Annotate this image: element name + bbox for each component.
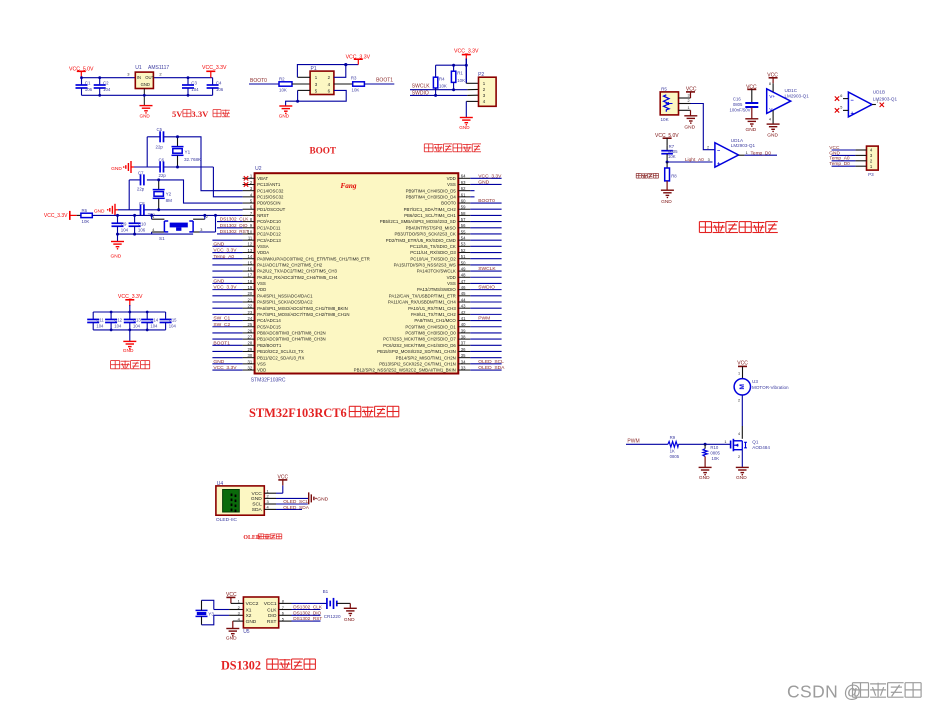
svg-text:13: 13 <box>248 248 253 253</box>
resistor R4 <box>433 77 437 88</box>
svg-text:PA0/WKUP/ADC0/TIM2_CH1_ETR/TIM: PA0/WKUP/ADC0/TIM2_CH1_ETR/TIM5_CH1/TIM8… <box>257 256 370 261</box>
svg-text:33: 33 <box>461 365 466 370</box>
svg-text:VDD: VDD <box>447 176 456 181</box>
resistor R1 <box>451 71 455 82</box>
ground GND OLED <box>308 492 310 504</box>
svg-text:64: 64 <box>461 174 466 179</box>
svg-text:VCC_3.3V: VCC_3.3V <box>213 285 237 291</box>
no-connect X pin 2 <box>244 182 248 186</box>
svg-text:20: 20 <box>248 291 253 296</box>
wire VCC drop filter <box>129 305 131 312</box>
wire UD1A output Temp_D0 <box>739 154 745 156</box>
svg-text:B1: B1 <box>323 589 329 594</box>
resistor R3 <box>353 82 365 86</box>
wire top rail download <box>436 64 467 66</box>
wire mosfet source to GND <box>741 450 743 468</box>
motor U3 vibration <box>734 379 750 395</box>
svg-text:58: 58 <box>461 211 466 216</box>
svg-text:U2: U2 <box>255 166 262 172</box>
switch S1 reset button <box>152 218 165 220</box>
svg-text:C3: C3 <box>191 81 197 86</box>
svg-text:Temp_A0: Temp_A0 <box>829 156 850 162</box>
svg-text:PB15/SPI2_MOSI/I2S2_SD/TIM1_CH: PB15/SPI2_MOSI/I2S2_SD/TIM1_CH3N <box>377 349 456 354</box>
wire S1 pin1 up <box>151 215 153 219</box>
svg-text:GND: GND <box>140 113 151 118</box>
svg-text:VCC_3.3V: VCC_3.3V <box>118 294 143 300</box>
capacitor C1 <box>81 78 83 85</box>
svg-text:Temp_D0: Temp_D0 <box>829 161 850 167</box>
svg-text:106: 106 <box>85 87 93 92</box>
header P3 <box>867 146 879 170</box>
svg-text:VDD: VDD <box>447 275 456 280</box>
wire VCC1 to battery <box>292 602 327 604</box>
svg-text:10K: 10K <box>82 219 90 224</box>
svg-text:8M: 8M <box>166 198 173 203</box>
capacitor C14 <box>146 312 148 319</box>
wire Y1 bottom to pin4 <box>213 167 242 197</box>
svg-text:BOOT0: BOOT0 <box>250 78 267 84</box>
svg-text:R5: R5 <box>661 86 667 91</box>
svg-text:VCC2: VCC2 <box>246 601 259 607</box>
wire OLED VCC <box>276 492 283 494</box>
svg-text:GND: GND <box>767 133 778 139</box>
svg-text:4: 4 <box>738 432 740 436</box>
wire R9 to gate <box>679 443 731 445</box>
svg-text:C7: C7 <box>138 170 144 175</box>
junction dots 5V block <box>80 76 83 79</box>
svg-text:PB1/ADC9/TIM3_CH4/TIM8_CH3N: PB1/ADC9/TIM3_CH4/TIM8_CH3N <box>257 337 326 342</box>
svg-text:UD1B: UD1B <box>873 90 885 95</box>
wire R4 top leg <box>435 65 437 77</box>
svg-text:CSDN @: CSDN @ <box>787 682 862 702</box>
svg-text:R4: R4 <box>439 77 445 82</box>
svg-text:PA2/U2_TX/ADC2/TIM2_CH3/TIM5_C: PA2/U2_TX/ADC2/TIM2_CH3/TIM5_CH3 <box>257 269 337 274</box>
svg-text:53: 53 <box>461 242 466 247</box>
svg-text:GND: GND <box>94 208 105 214</box>
svg-text:44: 44 <box>461 297 466 302</box>
svg-text:R2: R2 <box>279 76 285 81</box>
svg-text:106: 106 <box>138 228 146 233</box>
svg-text:DS1302: DS1302 <box>221 659 261 673</box>
svg-text:X2: X2 <box>246 613 252 619</box>
ground GND UD1C <box>767 123 780 125</box>
svg-text:GND: GND <box>111 253 122 259</box>
svg-text:104: 104 <box>121 228 129 233</box>
svg-text:SW_C2: SW_C2 <box>213 322 230 328</box>
svg-text:PC7/I2S3_MCK/TIM8_CH2/SDIO_D7: PC7/I2S3_MCK/TIM8_CH2/SDIO_D7 <box>383 337 456 342</box>
crystal Y2 <box>158 180 160 189</box>
oled screen green rect <box>223 490 240 513</box>
svg-text:VCC1: VCC1 <box>264 601 277 607</box>
svg-text:0805: 0805 <box>710 450 720 455</box>
svg-text:47: 47 <box>461 279 466 284</box>
svg-text:CR1220: CR1220 <box>324 614 341 619</box>
svg-text:PC9/TIM8_CH4/SDIO_D1: PC9/TIM8_CH4/SDIO_D1 <box>405 324 456 329</box>
svg-text:49: 49 <box>461 266 466 271</box>
wire UD1C GND pin <box>772 110 774 124</box>
svg-text:STM32F103RC: STM32F103RC <box>251 377 286 383</box>
svg-text:10K: 10K <box>439 84 447 89</box>
svg-text:104: 104 <box>191 87 199 92</box>
svg-text:GND: GND <box>344 617 355 623</box>
svg-text:40: 40 <box>461 322 466 327</box>
wire S1 pin2 up <box>204 215 206 219</box>
svg-text:57: 57 <box>461 217 466 222</box>
svg-text:OUT: OUT <box>145 75 154 80</box>
resistor R9 zigzag <box>668 442 679 448</box>
wires P3 stubs <box>855 149 866 151</box>
svg-text:50: 50 <box>461 260 466 265</box>
svg-text:DS1302_RST: DS1302_RST <box>220 229 249 234</box>
svg-text:UD1C: UD1C <box>785 88 798 93</box>
svg-text:R9: R9 <box>670 435 676 440</box>
wire battery to GND <box>337 602 351 604</box>
wire divider node to UD1A in+ <box>667 161 712 163</box>
svg-text:DIO: DIO <box>268 613 277 619</box>
resistor R7 plates <box>666 145 668 150</box>
svg-text:DS1302_DIO: DS1302_DIO <box>220 223 248 228</box>
svg-text:Light_A0: Light_A0 <box>685 157 704 163</box>
header P1 <box>310 71 334 94</box>
svg-text:VCC_3.3V: VCC_3.3V <box>213 248 237 254</box>
svg-text:41: 41 <box>461 316 466 321</box>
svg-text:SDA: SDA <box>252 507 263 513</box>
svg-text:10K: 10K <box>661 117 670 122</box>
svg-text:104: 104 <box>103 87 111 92</box>
svg-text:Temp_D0: Temp_D0 <box>751 150 772 156</box>
wire U1 ground leg <box>143 89 145 96</box>
wire R1 bottom leg <box>453 82 455 89</box>
svg-text:BOOT1: BOOT1 <box>213 340 230 346</box>
svg-text:32.768K: 32.768K <box>184 157 202 162</box>
wire U5 pin4 stub and GND <box>233 620 244 622</box>
svg-text:PB8/TIM4_CH3/SDIO_D4: PB8/TIM4_CH3/SDIO_D4 <box>406 194 457 199</box>
svg-text:PB12/SPI2_NSS/I2S2_WS/I2C2_SMB: PB12/SPI2_NSS/I2S2_WS/I2C2_SMBAI/TIM1_BK… <box>354 368 456 373</box>
svg-text:63: 63 <box>461 180 466 185</box>
svg-text:1: 1 <box>746 151 748 155</box>
mcu U2 left pin stubs and numbers <box>243 177 255 179</box>
resistor R2 <box>279 82 292 86</box>
svg-text:55: 55 <box>461 229 466 234</box>
wire Y1 top path to pin3 <box>163 137 242 191</box>
title thermistor module <box>699 221 711 223</box>
svg-text:5V: 5V <box>172 109 183 119</box>
ground GND thermistor pot <box>690 110 692 115</box>
svg-text:Q1: Q1 <box>752 439 759 444</box>
capacitor C9 <box>117 215 119 223</box>
svg-text:2: 2 <box>738 455 740 459</box>
crystal Y3 <box>196 609 208 611</box>
svg-text:STM32F103RCT6: STM32F103RCT6 <box>249 406 347 420</box>
svg-text:0805: 0805 <box>670 454 680 459</box>
svg-text:CLK: CLK <box>267 607 277 613</box>
svg-text:R1: R1 <box>457 71 463 76</box>
svg-text:0805: 0805 <box>733 102 743 107</box>
svg-text:35: 35 <box>461 353 466 358</box>
svg-text:43: 43 <box>461 304 466 309</box>
title download module <box>424 143 433 145</box>
chip U5 DS1302 body <box>243 597 278 628</box>
svg-text:OLED_SCL: OLED_SCL <box>283 499 308 505</box>
ground GND 5V block <box>140 105 153 107</box>
wires U2 left side plain <box>212 239 242 241</box>
battery B1 CR1220 <box>326 598 328 609</box>
svg-text:3: 3 <box>238 611 240 616</box>
ground GND filter <box>123 340 136 342</box>
svg-text:46: 46 <box>461 285 466 290</box>
wire P1 pin5 stub <box>298 89 311 91</box>
svg-text:GND: GND <box>111 166 122 172</box>
svg-text:39: 39 <box>461 328 466 333</box>
ground GND mosfet <box>736 466 749 468</box>
ground GND DS1302 <box>226 628 239 630</box>
thermistor R8 <box>666 162 668 168</box>
resistor R10 zigzag <box>704 444 706 448</box>
svg-text:C10: C10 <box>138 222 147 227</box>
svg-text:34: 34 <box>461 359 466 364</box>
svg-text:PA6/SPI1_MISO/ADC6/TIM3_CH1/TI: PA6/SPI1_MISO/ADC6/TIM3_CH1/TIM8_BKIN <box>257 306 348 311</box>
ground GND BOOT <box>279 105 292 107</box>
svg-text:12: 12 <box>248 242 253 247</box>
wire P1 left loop <box>297 65 345 78</box>
svg-text:16: 16 <box>248 266 253 271</box>
svg-text:3: 3 <box>200 228 202 232</box>
wire NRST rail <box>92 214 242 216</box>
svg-text:PA11/CAN_RX/USBDM/TIM1_CH4: PA11/CAN_RX/USBDM/TIM1_CH4 <box>388 300 456 305</box>
svg-text:1: 1 <box>688 106 690 110</box>
svg-text:R10: R10 <box>710 445 718 450</box>
svg-text:1: 1 <box>152 215 154 219</box>
svg-text:BOOT1: BOOT1 <box>376 77 393 83</box>
svg-text:104: 104 <box>114 324 122 329</box>
svg-text:VSS: VSS <box>257 281 266 286</box>
svg-text:BOOT0: BOOT0 <box>441 201 456 206</box>
svg-text:Y2: Y2 <box>166 191 172 196</box>
svg-text:21: 21 <box>248 297 253 302</box>
svg-text:2: 2 <box>238 605 240 610</box>
wire top rail 5V block <box>82 77 136 79</box>
svg-text:PA9/U1_TX/TIM1_CH2: PA9/U1_TX/TIM1_CH2 <box>411 312 456 317</box>
wires U2 pins 8-10 DS1302 labels <box>217 221 243 223</box>
wire GND drop BOOT <box>285 101 287 106</box>
svg-text:GND: GND <box>736 475 747 481</box>
svg-text:51: 51 <box>461 254 466 259</box>
net label thermistor chinese <box>636 172 641 174</box>
svg-text:VSS: VSS <box>447 182 456 187</box>
svg-text:62: 62 <box>461 186 466 191</box>
svg-text:PA10/U1_RX/TIM1_CH3: PA10/U1_RX/TIM1_CH3 <box>408 306 456 311</box>
svg-text:PA12/CAN_TX/USBDP/TIM1_ETR: PA12/CAN_TX/USBDP/TIM1_ETR <box>389 293 456 298</box>
svg-text:VSS: VSS <box>447 281 456 286</box>
svg-text:PA1/ADC1/TIM2_CH2/TIM5_CH2: PA1/ADC1/TIM2_CH2/TIM5_CH2 <box>257 262 323 267</box>
wire R2 to P1 pin3 <box>292 83 310 85</box>
svg-text:2: 2 <box>738 399 740 403</box>
svg-text:PC15/OSC32: PC15/OSC32 <box>257 194 284 199</box>
svg-text:54: 54 <box>461 236 466 241</box>
module U4 OLED body <box>216 486 264 515</box>
wire UD1B in+ stub <box>843 109 848 111</box>
svg-text:PC13/ANT1: PC13/ANT1 <box>257 182 281 187</box>
svg-text:61: 61 <box>461 192 466 197</box>
wire X1 <box>214 609 229 611</box>
svg-text:PD1/OSCOUT: PD1/OSCOUT <box>257 207 286 212</box>
svg-text:Fang: Fang <box>341 182 357 190</box>
wire X2 <box>214 614 229 616</box>
no-connect X pin 1 <box>244 176 248 180</box>
svg-text:10K: 10K <box>352 88 360 93</box>
svg-text:R3: R3 <box>351 76 357 81</box>
svg-text:PC11/U4_RX/SDIO_D3: PC11/U4_RX/SDIO_D3 <box>410 250 456 255</box>
svg-text:DS1302_CLK: DS1302_CLK <box>293 605 323 610</box>
svg-text:C1: C1 <box>85 81 91 86</box>
svg-text:PB3/JTDO/SPI3_SCK/I2S3_CK: PB3/JTDO/SPI3_SCK/I2S3_CK <box>394 232 455 237</box>
svg-text:C4: C4 <box>216 81 222 86</box>
svg-text:C6: C6 <box>159 157 165 162</box>
capacitor C5 <box>159 131 161 142</box>
svg-text:VDD: VDD <box>257 368 266 373</box>
svg-text:36: 36 <box>461 347 466 352</box>
oled pin stubs <box>264 492 276 494</box>
wire Y3 bottom loop <box>201 616 203 624</box>
svg-text:OLED_SCL: OLED_SCL <box>478 359 504 365</box>
svg-text:PB7/I2C1_SDA/TIM4_CH2: PB7/I2C1_SDA/TIM4_CH2 <box>404 207 457 212</box>
svg-text:P1: P1 <box>311 66 317 72</box>
svg-text:106: 106 <box>216 87 224 92</box>
op-amp UD1C <box>767 89 791 114</box>
svg-text:GND: GND <box>246 619 257 625</box>
svg-text:24: 24 <box>248 316 253 321</box>
svg-text:C9: C9 <box>121 222 127 227</box>
wire P1 pin6 bottom loop <box>285 90 346 101</box>
capacitor C2 <box>99 78 101 85</box>
svg-text:15: 15 <box>248 260 253 265</box>
capacitor C7 <box>140 174 142 185</box>
capacitor C4 <box>212 78 214 85</box>
capacitor C6 <box>159 162 161 173</box>
wire filter top rail <box>93 311 165 313</box>
svg-text:42: 42 <box>461 310 466 315</box>
wire OLED SCL <box>276 503 308 505</box>
svg-text:P3: P3 <box>868 172 874 177</box>
capacitor C8 <box>140 204 142 215</box>
svg-text:PB14/SPI2_MISO/TIM1_CH2N: PB14/SPI2_MISO/TIM1_CH2N <box>396 355 456 360</box>
wire S1 pin3 path <box>200 231 216 233</box>
wire OLED GND <box>276 497 309 499</box>
wire P1 pin4 to R3 <box>334 83 353 85</box>
svg-text:GND: GND <box>141 82 150 87</box>
header P2 <box>479 77 497 106</box>
svg-text:AOD484: AOD484 <box>752 445 770 450</box>
svg-text:SWCLK: SWCLK <box>478 266 496 272</box>
svg-text:22p: 22p <box>156 144 164 149</box>
wire UD1C VCC pin <box>772 83 774 92</box>
svg-text:DS1302_DIO: DS1302_DIO <box>293 610 321 615</box>
regulator U1 AMS1117 <box>135 72 153 88</box>
wire motor to mosfet drain <box>741 395 743 426</box>
wire C5 left leg down <box>146 137 148 167</box>
wire R5 pin stubs <box>679 97 691 99</box>
svg-text:VCC: VCC <box>737 360 748 366</box>
svg-text:PA7/SPI1_MOSI/ADC7/TIM3_CH2/TI: PA7/SPI1_MOSI/ADC7/TIM3_CH2/TIM8_CH1N <box>257 312 349 317</box>
svg-text:19: 19 <box>248 285 253 290</box>
svg-text:VSSA: VSSA <box>257 244 269 249</box>
svg-text:GND: GND <box>829 150 840 156</box>
wire R3 to BOOT1 <box>364 83 394 85</box>
ground GND thermistor divider <box>661 189 674 191</box>
junction dots filter <box>110 311 113 314</box>
wire R1 top leg <box>453 65 455 71</box>
svg-text:PWM: PWM <box>478 316 490 322</box>
svg-text:VBAT: VBAT <box>257 176 268 181</box>
svg-text:8: 8 <box>769 82 771 86</box>
svg-text:31: 31 <box>248 359 253 364</box>
svg-text:GND: GND <box>684 125 695 131</box>
ground GND download <box>460 117 473 119</box>
svg-text:28: 28 <box>248 341 253 346</box>
wire bottom rail 5V block <box>82 94 213 96</box>
svg-text:OLED_SDA: OLED_SDA <box>283 505 309 511</box>
wire GND drop filter <box>129 330 131 341</box>
svg-text:3: 3 <box>688 94 690 98</box>
svg-text:GND: GND <box>251 496 262 502</box>
svg-text:MOTOR-Vibration: MOTOR-Vibration <box>752 385 789 390</box>
svg-text:4: 4 <box>152 228 154 232</box>
svg-text:OLED: OLED <box>243 535 260 541</box>
svg-text:29: 29 <box>248 347 253 352</box>
svg-text:GND: GND <box>459 125 470 130</box>
ground GND reset <box>117 234 119 241</box>
svg-text:DS1302_CLK: DS1302_CLK <box>220 217 250 222</box>
ground GND C16 <box>745 118 758 120</box>
svg-text:PB6/I2C1_SCL/TIM4_CH1: PB6/I2C1_SCL/TIM4_CH1 <box>404 213 456 218</box>
capacitor C11 <box>92 312 94 319</box>
svg-text:10K: 10K <box>712 456 720 461</box>
svg-text:PA15/JTDI/SPI3_NSS/I2S3_WS: PA15/JTDI/SPI3_NSS/I2S3_WS <box>394 262 456 267</box>
wire P1 top VCC branch <box>346 64 359 66</box>
svg-text:GND: GND <box>213 241 224 247</box>
svg-text:GND: GND <box>317 496 328 502</box>
svg-text:NRST: NRST <box>257 213 269 218</box>
svg-text:PC6/I2S2_MCK/TIM8_CH1/SDIO_D6: PC6/I2S2_MCK/TIM8_CH1/SDIO_D6 <box>383 343 456 348</box>
svg-text:52: 52 <box>461 248 466 253</box>
transistor Q1 AOD484 nmos <box>730 441 732 449</box>
svg-text:10K: 10K <box>668 154 676 159</box>
wire reset bottom rail <box>118 233 194 235</box>
mcu U2 right pin stubs and numbers <box>458 177 470 179</box>
no-connect X UD1B output <box>880 103 884 107</box>
svg-text:PWM: PWM <box>627 438 639 444</box>
wire GND leg download <box>465 101 467 117</box>
svg-text:OLED_SDA: OLED_SDA <box>478 365 505 371</box>
wire Y2 bottom rail to pin6 <box>118 209 141 211</box>
svg-text:Temp_A0: Temp_A0 <box>213 254 234 260</box>
svg-text:104: 104 <box>96 324 104 329</box>
wire P2 pin4 stub <box>466 100 478 102</box>
svg-text:PC5/ADC15: PC5/ADC15 <box>257 324 281 329</box>
crystal Y1 <box>177 137 179 147</box>
svg-text:1K: 1K <box>670 449 675 454</box>
svg-text:GND: GND <box>699 475 710 481</box>
wire VCC to motor <box>742 366 744 378</box>
capacitor C10 <box>134 215 136 223</box>
svg-text:18: 18 <box>248 279 253 284</box>
title filter capacitors <box>111 360 120 362</box>
svg-text:10K: 10K <box>279 88 287 93</box>
svg-text:PB5/I2C1_SMBA/SPI3_MOSI/I2S3_S: PB5/I2C1_SMBA/SPI3_MOSI/I2S3_SD <box>380 219 456 224</box>
svg-text:S1: S1 <box>159 236 165 241</box>
wire Y3 top loop <box>201 600 203 610</box>
svg-text:PA13/JTMS/SWDIO: PA13/JTMS/SWDIO <box>417 287 456 292</box>
